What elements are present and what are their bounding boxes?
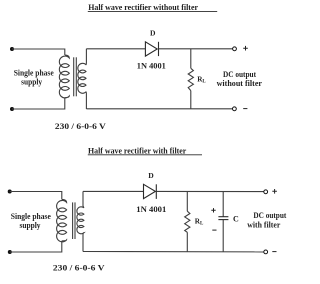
svg-text:Half wave rectifier with filte: Half wave rectifier with filter bbox=[88, 146, 187, 155]
label DC output with filter bbox=[247, 211, 286, 230]
title: Half wave rectifier without filter bbox=[88, 3, 217, 12]
label - (circuit 2 output) bbox=[272, 251, 276, 253]
wire: capacitor branch circuit 2 bbox=[222, 192, 224, 252]
label: Single phase supply (circuit 1) bbox=[14, 68, 54, 86]
transformer T2 secondary coil bbox=[77, 191, 84, 251]
terminal dot bottom-left (circuit 2) bbox=[8, 250, 12, 254]
svg-text:D: D bbox=[150, 29, 156, 38]
transformer T2 primary coil bbox=[57, 199, 67, 241]
diode D circuit 1 bbox=[145, 42, 158, 56]
svg-text:Single phase: Single phase bbox=[14, 68, 54, 77]
svg-text:with filter: with filter bbox=[247, 221, 280, 230]
terminal circle - (circuit 1) bbox=[233, 107, 237, 111]
svg-text:230 / 6-0-6 V: 230 / 6-0-6 V bbox=[53, 263, 105, 272]
svg-text:1N 4001: 1N 4001 bbox=[136, 205, 166, 214]
svg-text:RL: RL bbox=[197, 75, 206, 84]
terminal circle + (circuit 1) bbox=[233, 47, 237, 51]
label - (circuit 1 output) bbox=[243, 108, 247, 110]
wire: bottom rail circuit 2 bbox=[83, 251, 264, 253]
capacitor C plates bbox=[218, 217, 228, 220]
label DC output without filter bbox=[217, 70, 263, 88]
label + (capacitor) bbox=[211, 208, 215, 212]
svg-text:without filter: without filter bbox=[217, 79, 263, 88]
resistor RL circuit 1 bbox=[188, 68, 193, 90]
svg-text:supply: supply bbox=[21, 78, 42, 87]
wire: top rail circuit 2 (secondary to diode) bbox=[83, 190, 144, 192]
terminal circle - (circuit 2) bbox=[264, 250, 268, 254]
wire: top rail circuit 1 (secondary to diode) bbox=[86, 48, 145, 50]
wire: bottom rail circuit 1 bbox=[86, 108, 232, 110]
label - (capacitor) bbox=[212, 229, 216, 231]
wire: supply loop circuit 1 bbox=[12, 49, 65, 109]
label + (circuit 1 output) bbox=[243, 46, 248, 51]
svg-text:230 / 6-0-6 V: 230 / 6-0-6 V bbox=[55, 122, 106, 131]
svg-text:Half wave rectifier without fi: Half wave rectifier without filter bbox=[88, 3, 198, 12]
svg-text:DC output: DC output bbox=[253, 211, 286, 220]
wire: RL branch circuit 2 bbox=[186, 191, 188, 251]
transformer T1 primary coil bbox=[59, 55, 69, 98]
title: Half wave rectifier with filter bbox=[88, 146, 202, 155]
svg-text:D: D bbox=[148, 171, 154, 180]
wire: diode to + terminal circuit 1 bbox=[159, 48, 233, 50]
terminal dot top-left (circuit 2) bbox=[8, 190, 12, 194]
wire: supply loop circuit 2 bbox=[10, 192, 62, 253]
svg-text:C: C bbox=[233, 215, 239, 224]
svg-text:supply: supply bbox=[20, 221, 41, 230]
terminal dot top-left (circuit 1) bbox=[10, 47, 14, 51]
transformer T1 secondary coil bbox=[78, 49, 87, 109]
transformer T2 core bbox=[73, 202, 75, 239]
terminal dot bottom-left (circuit 1) bbox=[10, 107, 14, 111]
diode D circuit 2 bbox=[144, 184, 157, 199]
svg-text:Single phase: Single phase bbox=[11, 212, 51, 221]
label: Single phase supply (circuit 2) bbox=[11, 212, 51, 230]
svg-text:DC output: DC output bbox=[223, 70, 256, 79]
wire: diode to + terminal circuit 2 bbox=[156, 190, 263, 192]
label + (circuit 2 output) bbox=[272, 189, 277, 194]
svg-text:1N 4001: 1N 4001 bbox=[137, 61, 166, 70]
resistor RL circuit 2 bbox=[185, 211, 190, 232]
terminal circle + (circuit 2) bbox=[264, 190, 268, 194]
svg-text:RL: RL bbox=[195, 217, 204, 226]
transformer T1 core bbox=[74, 57, 77, 96]
wire: RL branch circuit 1 bbox=[190, 49, 192, 109]
